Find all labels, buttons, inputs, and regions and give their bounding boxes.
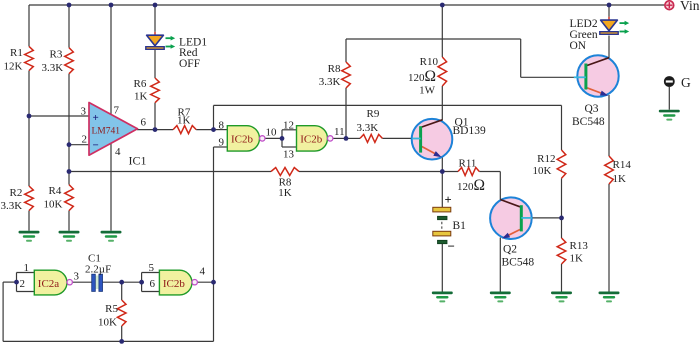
- svg-text:6: 6: [150, 278, 156, 290]
- svg-text:3.3K: 3.3K: [319, 76, 341, 88]
- wire LED1 column top: [154, 5, 156, 32]
- wire Q1 emitter to node: [441, 157, 443, 172]
- svg-text:OFF: OFF: [179, 58, 200, 70]
- svg-text:R8: R8: [328, 63, 341, 75]
- ground (R13): [551, 292, 572, 303]
- resistor R2 3.3K: [1, 186, 34, 212]
- resistor R11 120ohm: [457, 157, 485, 194]
- svg-text:12: 12: [283, 119, 294, 131]
- svg-text:3: 3: [74, 271, 80, 283]
- svg-text:BD139: BD139: [453, 125, 486, 137]
- transistor Q3 BC548: [572, 55, 619, 128]
- resistor R7 1K: [173, 106, 196, 133]
- wire left column x29 mid: [28, 71, 30, 186]
- svg-text:1K: 1K: [278, 187, 292, 199]
- wire R10 column from rail: [441, 5, 443, 57]
- wire feedback pin2 to R8h: [69, 171, 271, 173]
- wire R14 to ground: [608, 184, 610, 292]
- junction top rail / LED1: [153, 3, 158, 8]
- ground (R4): [59, 231, 80, 242]
- svg-text:7: 7: [114, 104, 120, 116]
- wire Q2 base node to R13: [561, 218, 563, 238]
- wire pin5 stub: [142, 272, 160, 274]
- junction C1 / R5 node: [119, 280, 124, 285]
- svg-text:1W: 1W: [419, 85, 436, 97]
- junction top rail / IC1 pin7: [109, 3, 114, 8]
- wire R3 column top: [68, 5, 70, 48]
- capacitor C1 2.2uF: [85, 252, 111, 291]
- NAND gate IC2a pins 1,2,3: [34, 270, 72, 295]
- svg-text:R12: R12: [537, 153, 555, 165]
- svg-text:1K: 1K: [134, 91, 148, 103]
- wire gate2 output to node B: [333, 137, 346, 139]
- wire bottom-left feedback horizontal: [3, 281, 16, 283]
- transistor Q2 BC548: [490, 197, 534, 268]
- svg-text:R3: R3: [50, 49, 63, 61]
- svg-text:R4: R4: [49, 185, 62, 197]
- wire bottom-left feedback vertical: [2, 282, 4, 341]
- svg-text:3: 3: [81, 106, 87, 118]
- resistor R13 1K: [557, 238, 588, 265]
- svg-text:R1: R1: [10, 47, 23, 59]
- svg-text:BC548: BC548: [572, 116, 605, 128]
- svg-text:+: +: [445, 193, 452, 207]
- resistor R3 3.3K: [42, 48, 74, 74]
- svg-text:IC2b: IC2b: [300, 134, 323, 146]
- wire IC2a pin2 stub: [17, 291, 35, 293]
- resistor R8 3.3K: [319, 62, 351, 88]
- wire bottom gate output: [197, 281, 213, 283]
- wire left column x29 top: [28, 5, 30, 46]
- wire C1 to pins5-6 bracket: [102, 281, 141, 283]
- LED LED2 green: [570, 17, 630, 52]
- wire node A to R12 top rail: [214, 104, 562, 106]
- svg-text:R14: R14: [613, 159, 632, 171]
- wire Q3 base horizontal: [521, 76, 574, 78]
- wire R5 top lead: [121, 282, 123, 300]
- wire R5 bottom lead: [121, 326, 123, 341]
- NAND gate IC2b pins 5,6,4: [159, 270, 197, 295]
- svg-text:1K: 1K: [177, 114, 191, 126]
- wire gate1 output to pins12-13 bracket: [265, 137, 282, 139]
- svg-text:R2: R2: [10, 187, 23, 199]
- ground (Q2 emitter): [490, 292, 511, 303]
- svg-text:1: 1: [24, 262, 30, 274]
- junction pin2 node: [67, 142, 72, 147]
- wire R11 to Q2 collector corner: [479, 171, 500, 173]
- NAND gate IC2b pins 12,13,11: [297, 126, 333, 151]
- wire R8h to Q1 emitter node to R11: [299, 171, 458, 173]
- wire node B net to Q3 base horizontal: [346, 38, 521, 40]
- resistor R5 10K: [98, 300, 126, 329]
- ground (IC1 pin4): [101, 231, 122, 242]
- wire R13 to ground: [561, 264, 563, 292]
- wire pin9 drop to bottom gate output: [213, 147, 215, 341]
- svg-text:G: G: [681, 75, 691, 90]
- resistor R12 10K: [533, 150, 566, 178]
- wire IC1 pin7-pin4 column: [110, 5, 112, 231]
- resistor R6 1K: [134, 78, 160, 103]
- svg-text:9: 9: [219, 137, 225, 149]
- svg-text:IC2b: IC2b: [163, 278, 186, 290]
- svg-text:B1: B1: [453, 220, 467, 232]
- wire R12 top lead: [561, 105, 563, 150]
- NAND gate IC2b pins 8,9,10: [227, 126, 265, 151]
- svg-text:12K: 12K: [4, 61, 23, 73]
- svg-text:1K: 1K: [613, 173, 627, 185]
- svg-text:Q3: Q3: [585, 103, 599, 115]
- resistor R10 120ohm 1W: [408, 56, 447, 97]
- svg-text:Q2: Q2: [503, 243, 517, 255]
- wire IC1 output to R7: [137, 129, 173, 131]
- resistor R9 3.3K: [357, 108, 383, 142]
- resistor R4 10K: [44, 185, 74, 211]
- junction Q2 base node: [559, 216, 564, 221]
- wire IC2a pin1 stub: [17, 272, 35, 274]
- wire LED2 column from rail: [608, 5, 610, 17]
- svg-text:3.3K: 3.3K: [42, 62, 64, 74]
- svg-text:R9: R9: [367, 108, 380, 120]
- wire left column x29 bottom: [28, 211, 30, 231]
- ground (G terminal): [659, 110, 680, 121]
- wire IC1 pin3 input: [29, 115, 90, 117]
- wire Q2 collector drop: [499, 172, 501, 201]
- svg-text:13: 13: [283, 148, 295, 160]
- transistor Q1 BD139: [412, 117, 486, 160]
- svg-text:IC2b: IC2b: [231, 134, 254, 146]
- battery B1: [433, 193, 466, 254]
- junction R5 bottom rail: [119, 339, 124, 344]
- svg-text:8: 8: [219, 119, 225, 131]
- svg-text:3.3K: 3.3K: [357, 122, 379, 134]
- wire IC2b pins5-6 bracket: [141, 273, 143, 292]
- wire battery to ground: [441, 244, 443, 292]
- wire LED1 to R6: [154, 50, 156, 79]
- wire R9 to Q1 base: [382, 137, 412, 139]
- junction Q1 emitter node: [440, 169, 445, 174]
- junction node A: [211, 127, 216, 132]
- terminal Vin: [665, 0, 700, 13]
- svg-text:+: +: [93, 112, 99, 124]
- ground (battery B1): [432, 292, 453, 303]
- wire pin12 stub: [282, 129, 297, 131]
- wire R7 to node A: [196, 129, 213, 131]
- svg-text:2: 2: [20, 278, 26, 290]
- op-amp IC1 LM741: [89, 103, 138, 156]
- svg-text:Vin: Vin: [680, 0, 700, 13]
- svg-text:IC1: IC1: [129, 153, 147, 167]
- wire IC2a input bracket: [16, 273, 18, 292]
- resistor R1 12K: [4, 46, 34, 72]
- svg-text:LM741: LM741: [92, 126, 121, 136]
- wire pins12-13 bracket: [281, 130, 283, 147]
- wire IC2a output to C1: [72, 281, 91, 283]
- svg-text:2: 2: [82, 134, 88, 146]
- svg-text:4: 4: [115, 146, 121, 158]
- ground (R14): [599, 292, 620, 303]
- wire Q3 base net vertical: [520, 39, 522, 77]
- wire Q2 base horizontal: [532, 217, 562, 219]
- svg-text:6: 6: [141, 116, 147, 128]
- svg-text:−: −: [93, 140, 99, 152]
- junction feedback node: [67, 169, 72, 174]
- wire IC1 pin2 input: [69, 144, 90, 146]
- wire R8 bottom lead to node B: [345, 88, 347, 138]
- svg-text:5: 5: [149, 262, 155, 274]
- svg-text:4: 4: [200, 265, 206, 277]
- wire node A riser: [213, 105, 215, 129]
- wire pin13 stub: [282, 146, 297, 148]
- wire pin6 stub: [142, 291, 160, 293]
- svg-text:R10: R10: [420, 56, 439, 68]
- junction node B gate2 output: [344, 136, 349, 141]
- wire R10 to Q1 collector: [441, 86, 443, 121]
- wire top supply rail: [29, 4, 665, 6]
- svg-text:ON: ON: [570, 40, 587, 52]
- junction pins 12-13: [280, 136, 285, 141]
- svg-text:10: 10: [266, 126, 278, 138]
- junction IC2b pins 5-6: [139, 280, 144, 285]
- wire node to battery: [441, 172, 443, 208]
- svg-text:1K: 1K: [570, 253, 584, 265]
- svg-text:R13: R13: [570, 240, 589, 252]
- wire R12 to Q2 base node: [561, 178, 563, 218]
- wire IC2b pin9 stub: [214, 146, 228, 148]
- wire R8 top lead: [345, 39, 347, 62]
- wire G terminal to ground: [668, 87, 670, 110]
- svg-text:10K: 10K: [98, 317, 117, 329]
- wire R3 column mid: [68, 74, 70, 185]
- terminal G: [664, 75, 691, 90]
- resistor R8 1K feedback: [271, 168, 299, 199]
- wire bottom rail: [3, 340, 213, 342]
- svg-text:R11: R11: [459, 157, 477, 169]
- junction bottom gate output node: [211, 280, 216, 285]
- junction top rail / R3: [67, 3, 72, 8]
- junction top rail / R10: [440, 3, 445, 8]
- svg-text:10K: 10K: [533, 165, 552, 177]
- junction IC2a input bracket: [14, 280, 19, 285]
- svg-text:−: −: [448, 239, 455, 254]
- wire node A to IC2b pin8: [214, 129, 228, 131]
- junction top rail / LED2: [607, 3, 612, 8]
- wire Q2 emitter to ground: [499, 238, 501, 292]
- wire Q3 emitter to R14: [608, 95, 610, 156]
- wire node B to R9: [346, 137, 360, 139]
- junction pin3 node: [27, 114, 32, 119]
- svg-text:11: 11: [334, 126, 345, 138]
- LED LED1 red: [146, 32, 208, 70]
- svg-text:10K: 10K: [44, 199, 63, 211]
- wire R6 to IC1 output node: [154, 103, 156, 130]
- svg-text:2.2µF: 2.2µF: [85, 263, 111, 275]
- svg-text:BC548: BC548: [502, 256, 535, 268]
- wire LED2 to Q3 collector: [608, 36, 610, 59]
- ground (R2): [19, 231, 40, 242]
- wire R4 to ground: [68, 211, 70, 231]
- svg-text:3.3K: 3.3K: [1, 200, 23, 212]
- svg-text:R5: R5: [105, 303, 118, 315]
- junction IC1 output node: [153, 127, 158, 132]
- resistor R14 1K: [605, 156, 632, 185]
- svg-text:IC2a: IC2a: [38, 278, 60, 290]
- svg-text:R6: R6: [134, 78, 147, 90]
